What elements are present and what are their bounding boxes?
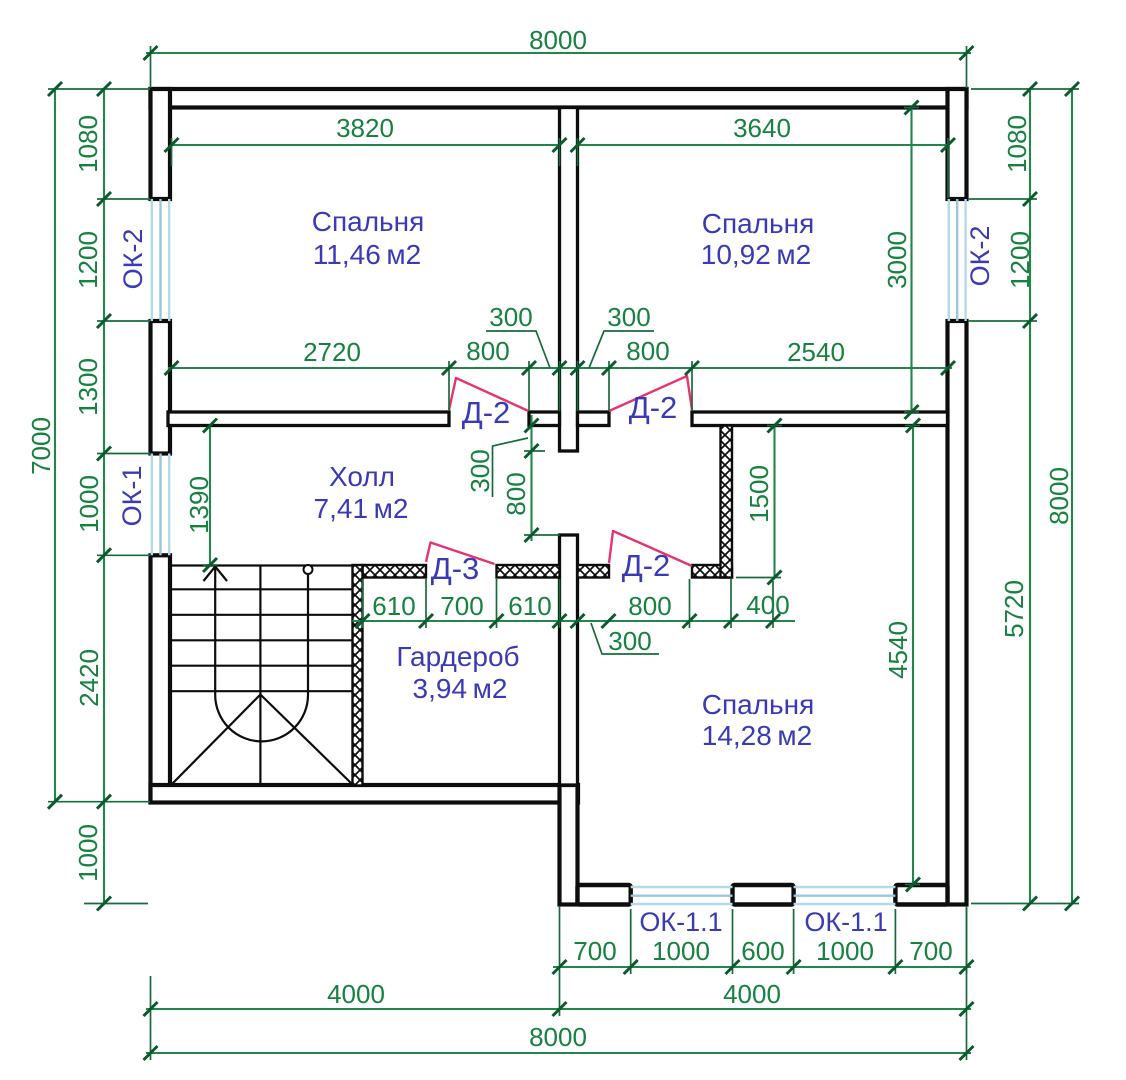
svg-text:1200: 1200	[73, 231, 103, 289]
svg-text:ОК-1: ОК-1	[117, 466, 147, 527]
svg-text:4000: 4000	[723, 979, 781, 1009]
svg-text:1000: 1000	[74, 475, 104, 533]
svg-text:800: 800	[628, 591, 671, 621]
svg-text:3820: 3820	[336, 113, 394, 143]
svg-text:610: 610	[372, 591, 415, 621]
svg-text:Д-2: Д-2	[629, 390, 678, 425]
svg-text:600: 600	[741, 936, 784, 966]
svg-text:300: 300	[608, 626, 651, 656]
svg-text:5720: 5720	[999, 580, 1029, 638]
svg-text:1000: 1000	[816, 936, 874, 966]
svg-text:Холл: Холл	[329, 461, 395, 492]
svg-text:2540: 2540	[787, 337, 845, 367]
svg-text:8000: 8000	[1044, 467, 1074, 525]
svg-text:700: 700	[573, 936, 616, 966]
svg-text:1080: 1080	[1002, 115, 1032, 173]
svg-text:700: 700	[440, 591, 483, 621]
svg-text:Спальня: Спальня	[702, 689, 815, 720]
svg-text:Спальня: Спальня	[702, 208, 815, 239]
svg-text:300: 300	[607, 302, 650, 332]
svg-text:Д-2: Д-2	[622, 548, 671, 583]
svg-text:1500: 1500	[744, 465, 774, 523]
svg-text:1080: 1080	[73, 115, 103, 173]
svg-text:800: 800	[501, 472, 531, 515]
svg-text:800: 800	[626, 336, 669, 366]
svg-text:ОК-1.1: ОК-1.1	[804, 907, 887, 937]
svg-text:7,41 м2: 7,41 м2	[314, 493, 409, 524]
svg-text:1300: 1300	[73, 358, 103, 416]
svg-text:3000: 3000	[882, 231, 912, 289]
svg-text:800: 800	[466, 336, 509, 366]
svg-text:1000: 1000	[73, 824, 103, 882]
svg-text:1390: 1390	[184, 476, 214, 534]
svg-text:ОК-2: ОК-2	[965, 226, 995, 287]
svg-text:400: 400	[746, 590, 789, 620]
svg-text:10,92 м2: 10,92 м2	[701, 239, 812, 270]
svg-text:4000: 4000	[327, 979, 385, 1009]
svg-text:14,28 м2: 14,28 м2	[702, 720, 813, 751]
svg-text:8000: 8000	[529, 25, 587, 55]
svg-text:300: 300	[489, 302, 532, 332]
svg-text:11,46 м2: 11,46 м2	[313, 239, 421, 270]
svg-text:ОК-1.1: ОК-1.1	[639, 907, 722, 937]
svg-text:Д-3: Д-3	[431, 551, 480, 586]
svg-text:2720: 2720	[303, 337, 361, 367]
svg-text:3,94 м2: 3,94 м2	[413, 673, 508, 704]
svg-text:610: 610	[508, 591, 551, 621]
svg-text:Спальня: Спальня	[312, 206, 425, 237]
svg-text:Д-2: Д-2	[462, 395, 511, 430]
svg-text:3640: 3640	[733, 113, 791, 143]
svg-text:ОК-2: ОК-2	[118, 229, 148, 290]
svg-text:8000: 8000	[529, 1022, 587, 1052]
svg-text:700: 700	[909, 936, 952, 966]
svg-text:4540: 4540	[883, 621, 913, 679]
svg-text:1200: 1200	[1005, 231, 1035, 289]
svg-text:300: 300	[465, 449, 495, 492]
svg-text:7000: 7000	[26, 417, 56, 475]
svg-text:2420: 2420	[74, 649, 104, 707]
svg-text:Гардероб: Гардероб	[396, 641, 519, 672]
svg-text:1000: 1000	[652, 936, 710, 966]
